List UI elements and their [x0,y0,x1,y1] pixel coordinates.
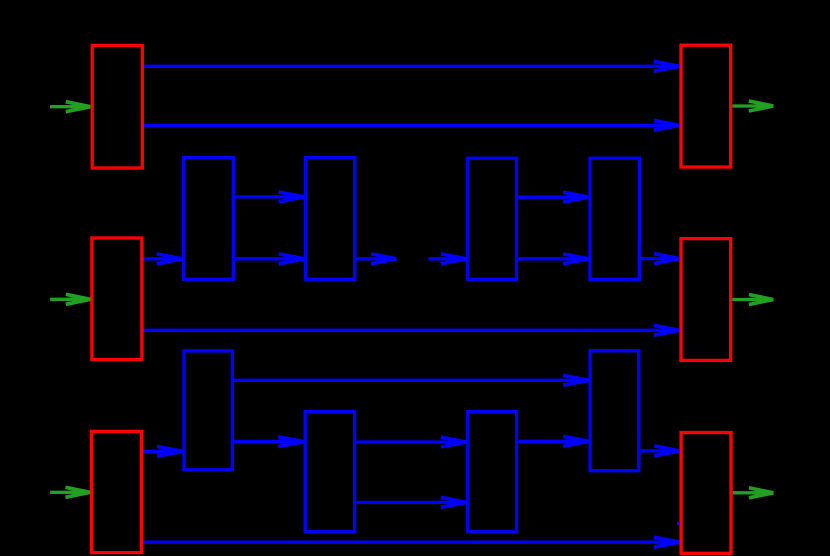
blue box row2 stage A [184,158,234,280]
blue arrow row3 stage A to stage B [234,437,304,447]
blue arrow row2 stage D to red-right [641,254,679,264]
blue arrow row2 stage A to stage B upper [235,192,304,202]
blue arrow row1 upper (left box to right box) [144,61,679,71]
blue arrow row2 red-left to stage A [144,254,183,264]
blue arrow row3 long bottom (red-left to red-right) [143,537,679,547]
red box row1 left (input stage) [92,45,142,168]
blue arrow row3 stage C to stage D [518,436,588,446]
blue box row3 stage C [468,412,517,532]
red box row1 right (output stage) [681,45,731,167]
red box row3 right (output stage) [681,433,731,554]
blue box row2 stage D [590,158,639,279]
blue arrow row3 stage D to red-right [641,446,680,456]
blue arrow row1 lower (left box to right box) [144,120,679,130]
small blue tick on row3 right red box edge [677,522,680,525]
green output arrow row1 [732,101,773,111]
green output arrow row3 [733,488,774,498]
blue box row2 stage C [468,158,517,279]
green output arrow row2 [732,295,773,305]
green input arrow row3 [50,487,90,497]
green input arrow row1 [50,102,90,112]
blue arrow row3 stage B to stage C upper [356,437,466,447]
blue arrow row3 stage B to stage C lower [356,497,466,507]
blue arrow row2 ellipsis to stage C [428,254,466,264]
blue arrow row2 stage C to stage D upper [518,192,588,202]
green input arrow row2 [50,294,90,304]
blue arrow row2 stage A to stage B lower [235,254,304,264]
blue arrow row2 stage B to ellipsis [357,254,397,264]
blue box row3 stage A [184,351,232,470]
blue arrow row3 long (stage A to stage D) [234,375,589,385]
blue box row3 stage D [590,351,639,471]
blue arrow row2 long bypass (red-left to red-right) [144,325,680,335]
blue box row3 stage B [305,412,354,532]
red box row3 left (input stage) [92,431,142,552]
red box row2 right (output stage) [681,239,731,361]
red box row2 left (input stage) [92,238,142,360]
blue box row2 stage B [306,158,355,280]
blue arrow row2 stage C to stage D lower [518,254,588,264]
blue arrow row3 red-left to stage A [143,446,182,456]
